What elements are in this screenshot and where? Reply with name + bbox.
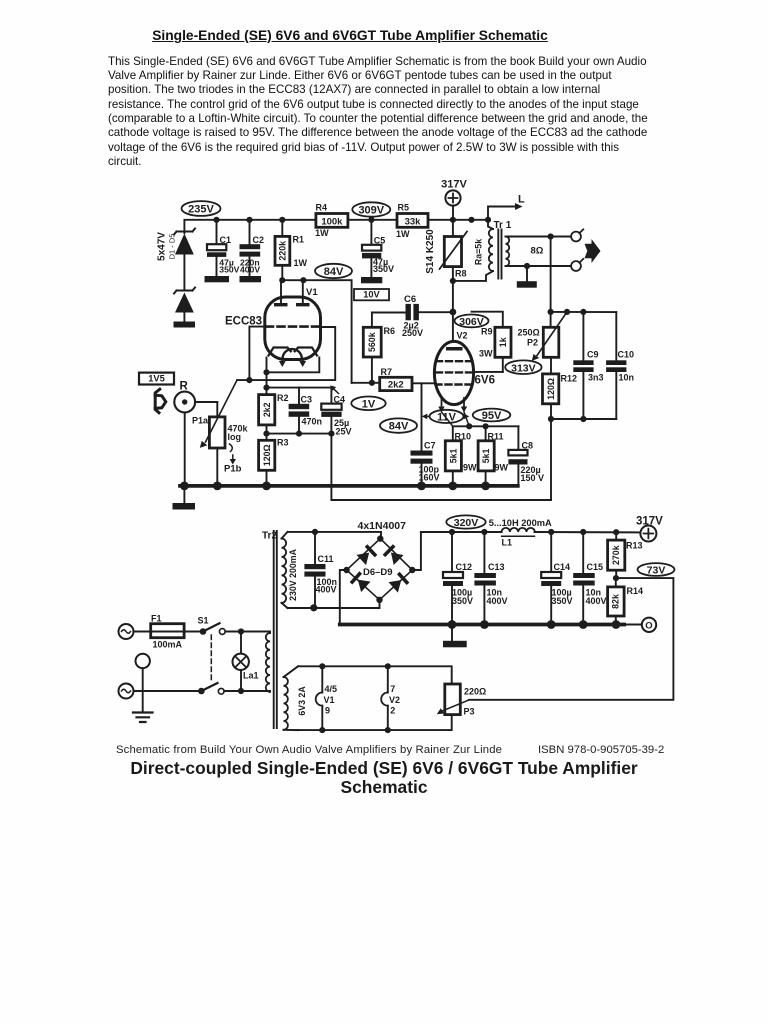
svg-text:1W: 1W bbox=[294, 258, 308, 268]
svg-text:3W: 3W bbox=[479, 349, 493, 359]
resistor R6 560k bbox=[363, 313, 395, 386]
node 320V bbox=[446, 515, 485, 529]
svg-text:R1: R1 bbox=[293, 235, 305, 245]
terminal 0 bbox=[624, 618, 656, 632]
input label 1V5 bbox=[139, 373, 174, 385]
capacitor C9 3n3 bbox=[573, 312, 603, 419]
svg-text:C2: C2 bbox=[253, 235, 265, 245]
svg-text:350V: 350V bbox=[373, 264, 394, 274]
svg-text:C1: C1 bbox=[220, 235, 232, 245]
svg-text:V2: V2 bbox=[389, 695, 400, 705]
output L arrow bbox=[488, 194, 525, 220]
svg-text:C14: C14 bbox=[554, 562, 571, 572]
svg-text:250V: 250V bbox=[402, 328, 423, 338]
capacitor C14 100u 350V bbox=[541, 532, 572, 625]
wire R2/R3 junction line bbox=[263, 431, 334, 437]
wire V1 anode line bbox=[279, 277, 351, 383]
svg-text:C13: C13 bbox=[488, 562, 505, 572]
node 313V bbox=[505, 360, 541, 374]
svg-text:309V: 309V bbox=[358, 205, 384, 217]
node 10V box bbox=[354, 289, 389, 300]
wire V2 cathode line bbox=[453, 423, 519, 429]
svg-text:10V: 10V bbox=[363, 290, 380, 300]
capacitor C13 10n 400V bbox=[474, 532, 507, 625]
capacitor C4 25u 25V bbox=[321, 388, 351, 437]
svg-text:82k: 82k bbox=[611, 594, 621, 609]
svg-text:2k2: 2k2 bbox=[262, 402, 272, 417]
transformer Tr1 bbox=[453, 220, 512, 281]
svg-text:2: 2 bbox=[390, 706, 395, 716]
svg-text:9W: 9W bbox=[495, 462, 509, 472]
svg-text:84V: 84V bbox=[324, 266, 344, 278]
svg-text:270k: 270k bbox=[611, 545, 621, 565]
ac source neutral bbox=[119, 684, 199, 699]
svg-text:P1a: P1a bbox=[192, 416, 209, 426]
svg-text:1V5: 1V5 bbox=[148, 374, 165, 384]
svg-text:313V: 313V bbox=[511, 362, 536, 374]
node 84V (grid) bbox=[380, 418, 417, 432]
wire feedback top line bbox=[548, 309, 617, 315]
wire heater top line bbox=[298, 663, 452, 684]
svg-text:R9: R9 bbox=[481, 327, 493, 337]
svg-text:1k: 1k bbox=[498, 337, 508, 347]
svg-text:320V: 320V bbox=[454, 517, 479, 529]
svg-text:R12: R12 bbox=[561, 374, 578, 384]
svg-text:V1: V1 bbox=[324, 695, 335, 705]
inductor L1 5...10H 200mA bbox=[489, 518, 552, 547]
node 306V bbox=[455, 315, 489, 328]
svg-text:C10: C10 bbox=[618, 350, 635, 360]
svg-text:9: 9 bbox=[325, 706, 330, 716]
capacitor C2 220n 400V bbox=[240, 220, 265, 282]
fuse F1 100mA bbox=[151, 614, 200, 650]
svg-text:120Ω: 120Ω bbox=[262, 444, 272, 466]
svg-text:8Ω: 8Ω bbox=[531, 245, 544, 256]
svg-text:R5: R5 bbox=[398, 203, 410, 213]
wire 0V rail bbox=[340, 620, 624, 629]
switch S1 (lower pole) bbox=[198, 683, 270, 694]
node 95V bbox=[473, 409, 511, 422]
wire 73V feedback to P3 wiper bbox=[469, 578, 674, 700]
svg-text:D1 - D5: D1 - D5 bbox=[168, 234, 177, 260]
svg-text:5x47V: 5x47V bbox=[157, 232, 168, 261]
svg-text:33k: 33k bbox=[405, 216, 422, 227]
svg-text:120Ω: 120Ω bbox=[546, 378, 556, 400]
svg-text:100k: 100k bbox=[321, 216, 343, 227]
svg-text:4x1N4007: 4x1N4007 bbox=[358, 520, 407, 532]
svg-text:5k1: 5k1 bbox=[448, 448, 458, 463]
svg-text:log: log bbox=[228, 432, 242, 442]
wire feedback to cathode bbox=[331, 434, 551, 500]
ground below input jack bbox=[173, 486, 196, 510]
svg-text:6V6: 6V6 bbox=[475, 375, 495, 387]
svg-text:235V: 235V bbox=[188, 204, 214, 216]
svg-text:C3: C3 bbox=[301, 394, 313, 404]
P1b wiper arrow bbox=[224, 444, 242, 475]
svg-text:560k: 560k bbox=[367, 332, 377, 352]
capacitor C3 470n bbox=[289, 388, 322, 434]
speaker output: terminals, 8 ohm, arrow, ground bbox=[506, 229, 601, 312]
svg-text:220Ω: 220Ω bbox=[464, 686, 486, 696]
svg-text:C8: C8 bbox=[522, 440, 534, 450]
resistor R3 120R bbox=[259, 434, 289, 486]
svg-text:317V: 317V bbox=[636, 515, 663, 527]
svg-text:84V: 84V bbox=[389, 421, 409, 433]
svg-text:7: 7 bbox=[390, 684, 395, 694]
node 1V bbox=[351, 397, 385, 411]
resistor R1 220k 1W bbox=[275, 220, 308, 280]
svg-text:400V: 400V bbox=[487, 596, 508, 606]
wire bridge minus to 0V rail bbox=[340, 570, 347, 625]
svg-text:95V: 95V bbox=[482, 410, 502, 422]
svg-text:3n3: 3n3 bbox=[588, 373, 604, 383]
wire switch to Tr2 primary top bbox=[225, 628, 270, 694]
svg-text:P2: P2 bbox=[527, 338, 538, 348]
resistor R9 1k 3W bbox=[472, 312, 512, 372]
svg-text:C15: C15 bbox=[587, 562, 604, 572]
varistor R8 S14 K250 bbox=[425, 220, 467, 342]
diode D9 on bottom-right edge bbox=[388, 572, 409, 593]
svg-text:317V: 317V bbox=[441, 179, 467, 191]
capacitor C5 47u 350V bbox=[361, 220, 394, 283]
svg-text:R11: R11 bbox=[488, 432, 504, 442]
diode D7 on top-right edge bbox=[383, 544, 404, 565]
zener chain D1-D5 5x47V bbox=[157, 229, 196, 322]
svg-text:R10: R10 bbox=[455, 432, 472, 442]
svg-text:150 V: 150 V bbox=[521, 473, 545, 483]
power terminal 317V (supply) bbox=[636, 515, 663, 541]
capacitor C6 2u2 250V bbox=[372, 294, 453, 338]
capacitor C8 220u 150V bbox=[508, 426, 544, 486]
svg-text:10n: 10n bbox=[619, 373, 635, 383]
svg-text:C11: C11 bbox=[318, 554, 334, 564]
tube V2 6V6 bbox=[434, 331, 495, 427]
svg-text:400V: 400V bbox=[586, 596, 607, 606]
wire V1 grid loop to P1a wiper bbox=[237, 327, 335, 384]
svg-text:160V: 160V bbox=[419, 472, 440, 482]
potentiometer P3 220R bbox=[437, 684, 486, 716]
svg-text:R8: R8 bbox=[455, 269, 467, 279]
wire HV secondary top line bbox=[288, 529, 382, 538]
svg-text:Ra=5k: Ra=5k bbox=[474, 239, 484, 265]
svg-text:11V: 11V bbox=[437, 411, 457, 423]
svg-text:25V: 25V bbox=[336, 427, 352, 437]
svg-text:1V: 1V bbox=[362, 398, 376, 410]
ac source live bbox=[119, 624, 151, 639]
diode D8 on bottom-left edge bbox=[350, 571, 371, 592]
heater V1 pins 4/5 9 bbox=[316, 666, 337, 730]
diode D6 on top-left edge bbox=[356, 544, 377, 565]
lamp La1 bbox=[233, 632, 259, 692]
svg-text:1W: 1W bbox=[396, 229, 410, 239]
bridge rectifier D6-D9 4x1N4007 bbox=[343, 520, 415, 603]
capacitor C1 47u 350V bbox=[205, 220, 240, 282]
svg-text:R7: R7 bbox=[381, 367, 393, 377]
capacitor C11 100n 400V bbox=[304, 532, 337, 608]
resistor R11 5k1 9W bbox=[478, 426, 508, 486]
node 235V bbox=[182, 201, 221, 216]
svg-text:Tr2: Tr2 bbox=[262, 531, 277, 542]
resistor R10 5k1 9W bbox=[445, 426, 477, 486]
node 73V bbox=[638, 563, 675, 576]
chassis ground on 0V rail bbox=[443, 625, 467, 648]
wire B+ 235V line bbox=[184, 217, 491, 233]
svg-text:470n: 470n bbox=[302, 417, 323, 427]
resistor R13 270k bbox=[608, 532, 643, 578]
potentiometer P1a 470k log bbox=[192, 380, 249, 486]
wire main ground rail bbox=[180, 482, 518, 491]
wire cathode to R2/C3/C4 bbox=[263, 385, 338, 394]
svg-text:L1: L1 bbox=[502, 537, 513, 547]
svg-text:R: R bbox=[180, 381, 189, 393]
wire V1 cathode loop box bbox=[263, 358, 319, 388]
resistor R7 2k2 bbox=[352, 367, 435, 391]
potentiometer P2 250R bbox=[518, 312, 568, 374]
svg-text:R4: R4 bbox=[316, 203, 328, 213]
resistor R4 100k 1W bbox=[315, 203, 348, 239]
svg-text:73V: 73V bbox=[647, 565, 666, 577]
resistor R14 82k bbox=[608, 575, 643, 625]
svg-text:350V: 350V bbox=[552, 596, 573, 606]
svg-text:350V: 350V bbox=[452, 596, 473, 606]
svg-text:F1: F1 bbox=[151, 614, 162, 624]
svg-text:6V3 2A: 6V3 2A bbox=[297, 686, 307, 716]
svg-text:250Ω: 250Ω bbox=[518, 327, 540, 337]
svg-text:4/5: 4/5 bbox=[325, 684, 338, 694]
svg-text:100mA: 100mA bbox=[153, 640, 183, 650]
capacitor C12 100u 350V bbox=[443, 532, 473, 625]
svg-text:P3: P3 bbox=[464, 706, 475, 716]
svg-text:R3: R3 bbox=[277, 438, 289, 448]
svg-text:R14: R14 bbox=[627, 586, 644, 596]
svg-text:V1: V1 bbox=[306, 287, 318, 298]
node 309V bbox=[352, 202, 390, 216]
capacitor C7 100p 160V bbox=[411, 383, 440, 486]
svg-text:400V: 400V bbox=[316, 584, 337, 594]
resistor R12 120R bbox=[543, 374, 578, 501]
wire bridge plus to 320V line bbox=[412, 532, 421, 570]
resistor R5 33k 1W bbox=[396, 203, 428, 240]
capacitor C10 10n bbox=[606, 312, 634, 419]
svg-text:Tr 1: Tr 1 bbox=[494, 220, 512, 231]
wire C9/C10 bottom line bbox=[551, 416, 616, 422]
svg-text:D6–D9: D6–D9 bbox=[363, 567, 393, 578]
node 84V (anode) bbox=[315, 264, 352, 278]
power terminal 317V bbox=[441, 179, 467, 220]
wire heater bottom line bbox=[298, 715, 452, 734]
svg-text:C9: C9 bbox=[587, 349, 599, 359]
svg-text:220k: 220k bbox=[278, 241, 288, 261]
svg-text:C5: C5 bbox=[374, 235, 386, 245]
capacitor C15 10n 400V bbox=[573, 532, 606, 625]
svg-text:C12: C12 bbox=[456, 562, 473, 572]
wire V2 screen to R9 bbox=[473, 371, 503, 373]
svg-text:V2: V2 bbox=[457, 331, 468, 341]
svg-text:5...10H 200mA: 5...10H 200mA bbox=[489, 518, 552, 528]
svg-text:230V 200mA: 230V 200mA bbox=[288, 548, 298, 600]
svg-text:S1: S1 bbox=[198, 616, 209, 626]
svg-text:2k2: 2k2 bbox=[388, 380, 404, 391]
svg-text:1W: 1W bbox=[315, 228, 329, 238]
svg-text:La1: La1 bbox=[243, 671, 259, 681]
svg-text:P1b: P1b bbox=[224, 464, 242, 475]
svg-text:L: L bbox=[518, 194, 525, 206]
wire 320V line bbox=[421, 529, 641, 535]
svg-text:R6: R6 bbox=[384, 326, 396, 336]
svg-text:350V: 350V bbox=[219, 265, 239, 275]
svg-text:R13: R13 bbox=[626, 541, 643, 551]
svg-text:O: O bbox=[645, 621, 652, 632]
svg-text:R2: R2 bbox=[277, 393, 289, 403]
svg-text:C7: C7 bbox=[424, 441, 436, 451]
tube V1 ECC83 bbox=[225, 280, 321, 367]
heater V2 pins 7 2 bbox=[381, 666, 400, 730]
svg-text:S14 K250: S14 K250 bbox=[425, 229, 436, 274]
svg-text:C4: C4 bbox=[334, 394, 346, 404]
ground below zener chain bbox=[174, 322, 196, 328]
transformer Tr2 bbox=[241, 531, 307, 731]
wire HV secondary bottom line bbox=[288, 600, 380, 612]
input arrow bbox=[155, 389, 166, 413]
svg-text:C6: C6 bbox=[404, 294, 416, 305]
earth terminal bbox=[133, 654, 153, 722]
switch S1 (upper pole) bbox=[198, 616, 226, 683]
node 11V with arrows bbox=[422, 410, 470, 424]
resistor R2 2k2 bbox=[259, 388, 289, 434]
input jack R bbox=[174, 381, 217, 486]
svg-text:400V: 400V bbox=[240, 265, 260, 275]
svg-text:9W: 9W bbox=[463, 462, 477, 472]
svg-text:5k1: 5k1 bbox=[481, 448, 491, 463]
